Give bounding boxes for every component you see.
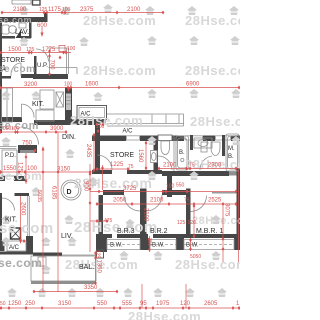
svg-text:28Hse.com: 28Hse.com: [185, 63, 240, 78]
svg-text:28Hse.com: 28Hse.com: [74, 219, 158, 236]
wall divider LIV/BR3: [99, 195, 104, 238]
svg-text:2050: 2050: [113, 198, 127, 204]
dim 200 bay: [149, 236, 151, 252]
svg-text:1350: 1350: [96, 260, 102, 274]
svg-text:1600: 1600: [85, 82, 99, 88]
A/C platform 1: [77, 106, 107, 120]
wall A/C bottom band: [0, 252, 33, 255]
svg-text:28Hse.com: 28Hse.com: [185, 13, 240, 28]
dim 3075 vertical: [238, 170, 240, 262]
dim vertical 2600: [20, 196, 22, 238]
svg-text:DIN.: DIN.: [62, 134, 76, 141]
svg-text:750: 750: [22, 141, 33, 147]
svg-text:555: 555: [122, 301, 133, 307]
svg-text:B.R.3: B.R.3: [117, 228, 135, 235]
svg-text:STORE: STORE: [1, 57, 25, 64]
dim 50 50 bay: [190, 238, 192, 251]
svg-text:M.: M.: [228, 146, 235, 152]
bedroom bottom wall band: [96, 234, 240, 238]
KIT door arc: [22, 104, 35, 118]
wall STORE right / bath left: [154, 140, 159, 172]
svg-text:se.com: se.com: [0, 256, 42, 270]
wall kitchen right col: [27, 237, 32, 253]
dim 700 U.P. rotated: [49, 50, 51, 76]
wall LAV bottom: [0, 36, 15, 39]
thin window wall MBR top: [212, 192, 236, 194]
svg-text:2100: 2100: [150, 198, 164, 204]
svg-text:50: 50: [0, 301, 6, 307]
svg-text:6185: 6185: [51, 186, 57, 200]
wall right edge: [237, 168, 241, 238]
svg-text:1060: 1060: [0, 126, 11, 132]
svg-text:550: 550: [97, 301, 108, 307]
meter box top: [33, 0, 41, 5]
svg-text:2300: 2300: [208, 163, 222, 169]
svg-text:3150: 3150: [57, 167, 71, 173]
svg-text:LAV.: LAV.: [15, 29, 29, 36]
wall left edge upper: [0, 17, 2, 133]
wall band bath/store top: [92, 136, 240, 142]
svg-text:A/C: A/C: [9, 245, 20, 251]
STORE1 door arc: [11, 63, 21, 76]
wall KIT bottom-left band: [0, 117, 22, 122]
svg-text:1975: 1975: [156, 301, 170, 307]
circle D: [61, 180, 81, 200]
bath1 window/cistern: [158, 135, 172, 141]
svg-text:5050: 5050: [190, 254, 201, 260]
svg-text:28Hse.com: 28Hse.com: [128, 309, 201, 320]
bath WC: [211, 142, 220, 156]
dim line 2: [1, 52, 71, 54]
svg-text:125: 125: [17, 162, 23, 173]
bath WC cistern: [201, 142, 207, 152]
svg-text:3200: 3200: [24, 82, 38, 88]
svg-text:1175: 1175: [48, 7, 62, 13]
svg-text:2100: 2100: [13, 7, 27, 13]
U.P. right thin wall: [48, 48, 77, 74]
wall divider BR3/BR2: [140, 189, 147, 239]
wall bath divider 1: [190, 135, 193, 150]
dim line 4 (1060/100/3900): [1, 131, 67, 133]
svg-text:475: 475: [104, 218, 113, 224]
dim STORE 1560 vertical: [145, 141, 147, 170]
bottom dim line: [1, 307, 240, 309]
svg-text:A/C: A/C: [123, 129, 134, 135]
U.P. door arc: [36, 49, 49, 62]
dim line 5 (1550/100/3150): [1, 171, 95, 173]
svg-text:120: 120: [180, 301, 191, 307]
wall left edge lower: [0, 196, 2, 251]
svg-text:LIV.: LIV.: [61, 233, 73, 240]
P.D. door arc to DIN: [21, 127, 39, 145]
svg-text:se.com: se.com: [0, 15, 32, 25]
svg-text:B.W.: B.W.: [110, 243, 123, 249]
bath sink counter: [194, 138, 212, 148]
svg-text:100: 100: [64, 82, 73, 88]
column box left of balcony: [38, 257, 46, 266]
BR3 door arc: [124, 195, 140, 211]
svg-text:100: 100: [27, 166, 38, 172]
svg-text:2605: 2605: [204, 301, 218, 307]
KIT counter box: [36, 110, 54, 121]
P.D. bottom wall: [0, 176, 26, 181]
dim MBR vertical line: [193, 204, 195, 238]
svg-text:2525: 2525: [208, 198, 222, 204]
wall column mid corridor: [167, 176, 172, 197]
bath1/tub divider thin: [173, 136, 175, 171]
svg-text:100: 100: [62, 7, 71, 13]
dark block right of P.D.: [18, 145, 37, 153]
wall STORE1 bottom-right: [21, 74, 34, 78]
svg-text:B.: B.: [228, 154, 234, 160]
svg-text:28Hse.com: 28Hse.com: [83, 63, 156, 78]
dim vertical 6185: [57, 132, 59, 292]
svg-text:3900: 3900: [50, 126, 64, 132]
X-box shaft: [56, 92, 64, 107]
kitchen lower door arc: [2, 198, 15, 211]
wall band under U.P.: [33, 74, 68, 79]
svg-text:D: D: [67, 189, 72, 196]
wall divider BR2/MBR: [186, 189, 191, 239]
svg-text:125: 125: [177, 220, 186, 226]
svg-text:100: 100: [67, 46, 76, 52]
wall under LAV door: [21, 36, 31, 39]
bay window pillars: [96, 238, 107, 252]
KIT fridge box: [40, 90, 54, 109]
wall stub right of LAV band: [44, 12, 48, 22]
svg-text:125: 125: [95, 250, 101, 259]
LAV toilet cistern: [2, 25, 9, 34]
svg-text:125: 125: [39, 7, 48, 13]
svg-text:125: 125: [26, 47, 35, 53]
svg-text:KIT.: KIT.: [5, 217, 17, 224]
bathtub B.: [176, 136, 189, 170]
BATH door arc: [158, 156, 172, 170]
dim 125/1320 balcony vertical: [95, 252, 97, 284]
svg-text:28Hse.com: 28Hse.com: [83, 13, 156, 28]
svg-text:1: 1: [2, 65, 6, 72]
svg-text:2375: 2375: [80, 7, 94, 13]
bottom-left A/C box: [7, 241, 26, 251]
svg-text:U.P.: U.P.: [37, 63, 48, 69]
red marks A/C bottom-left: [19, 238, 22, 242]
bath1 WC: [161, 141, 170, 155]
dim vertical 5035: [42, 150, 44, 292]
kitchen lower: top wall w/ door gap: [0, 193, 29, 196]
wall top-left outline above flat: [12, 0, 31, 4]
svg-text:95: 95: [140, 301, 147, 307]
wall bath divider 2: [222, 135, 225, 156]
MBR door arc: [191, 196, 207, 212]
P.D. closet box: [2, 150, 17, 176]
svg-text:BAL.: BAL.: [79, 264, 94, 271]
dim 2525 vertical drop: [222, 204, 224, 262]
svg-text:B.W.: B.W.: [152, 243, 165, 249]
svg-text:6900: 6900: [186, 82, 200, 88]
wall DIN top band: [34, 120, 101, 125]
bedroom top walls: [103, 190, 186, 195]
door leaf LAV (triangle): [16, 30, 22, 38]
svg-text:550: 550: [176, 183, 185, 189]
svg-text:28Hse.com: 28Hse.com: [175, 257, 240, 272]
svg-text:2100: 2100: [163, 163, 177, 169]
wall STORE bottom: [92, 170, 162, 174]
dim corridor vline: [102, 165, 104, 190]
svg-text:KIT.: KIT.: [32, 101, 44, 108]
dim 2435 vertical: [93, 133, 95, 171]
bay window strip lines: [107, 240, 234, 250]
svg-text:1560: 1560: [137, 149, 143, 163]
svg-text:2600: 2600: [20, 202, 26, 216]
svg-text:STORE: STORE: [110, 152, 134, 159]
dim 475: [90, 220, 107, 222]
wall U.P. left: [34, 56, 37, 76]
wall LAV right: [29, 22, 32, 38]
svg-text:900: 900: [83, 181, 89, 192]
bay window small left box: [97, 250, 104, 258]
balcony bottom band: [31, 281, 96, 284]
svg-text:3350: 3350: [84, 285, 98, 291]
house icon grid: [19, 6, 29, 15]
X-box lower: [11, 228, 21, 239]
dim P.D. vertical: [25, 153, 27, 184]
svg-text:100: 100: [166, 184, 175, 190]
svg-text:B.: B.: [179, 150, 185, 156]
LAV toilet bowl: [9, 26, 17, 34]
wall STORE1 bottom-left: [0, 76, 11, 79]
svg-text:1500: 1500: [8, 47, 22, 53]
bath window boxes: [127, 136, 231, 140]
wall top band of LAV: [0, 17, 44, 22]
wall kitchen right thin: [28, 196, 30, 237]
red arrow top of column: [67, 88, 70, 93]
wall lighter bath bottom right: [229, 172, 240, 176]
svg-text:M.B.R. 1: M.B.R. 1: [196, 228, 223, 235]
svg-text:28Hse.com: 28Hse.com: [190, 114, 240, 129]
svg-text:1: 1: [236, 301, 240, 307]
dim line 3 (3200/100/1600/6900): [1, 87, 240, 89]
KIT counter left: [2, 88, 13, 122]
svg-text:2435: 2435: [85, 144, 91, 158]
basin near store wall: [151, 151, 158, 163]
svg-text:3150: 3150: [58, 301, 72, 307]
wall column right of X-box: [65, 87, 72, 123]
bathtub M.B.: [226, 134, 239, 171]
svg-text:100: 100: [11, 126, 20, 132]
svg-text:3075: 3075: [224, 203, 230, 217]
svg-text:B.W.: B.W.: [186, 243, 199, 249]
wall A/C bottom-left sides: [0, 241, 5, 251]
svg-text:1250: 1250: [8, 301, 22, 307]
svg-text:700: 700: [49, 60, 55, 71]
balcony outline: [31, 256, 96, 281]
svg-text:250: 250: [25, 301, 36, 307]
P.D. top thin wall: [0, 147, 17, 149]
svg-text:3725: 3725: [123, 186, 137, 192]
svg-text:120: 120: [188, 220, 197, 226]
svg-text:B.R.2: B.R.2: [150, 228, 168, 235]
M.BATH door arc: [200, 156, 212, 170]
LAV basin box: [19, 23, 26, 28]
svg-text:A/C: A/C: [81, 112, 92, 118]
svg-text:1550: 1550: [3, 166, 17, 172]
wall column left of STORE: [95, 110, 100, 173]
dim 900 vertical: [89, 164, 91, 252]
dim line top: [2, 12, 163, 14]
red drop lines bottom: [141, 284, 143, 308]
BR2 door arc: [147, 195, 163, 211]
wall under A/C platform 1: [70, 120, 106, 123]
svg-text:75: 75: [184, 198, 190, 204]
dim line L1 (3725/100/550): [90, 191, 236, 193]
svg-text:P.D.: P.D.: [5, 153, 16, 159]
svg-text:5035: 5035: [36, 190, 42, 202]
STORE door arc: [98, 155, 113, 171]
wall bath bottom band: [162, 171, 229, 176]
svg-text:2100: 2100: [143, 208, 149, 222]
svg-text:1225: 1225: [110, 162, 124, 168]
dim line L2 (2050/2100/25/2525): [96, 203, 237, 205]
svg-text:2100: 2100: [127, 7, 141, 13]
A/C long platform: [107, 114, 184, 126]
wall balcony top: [33, 253, 62, 257]
